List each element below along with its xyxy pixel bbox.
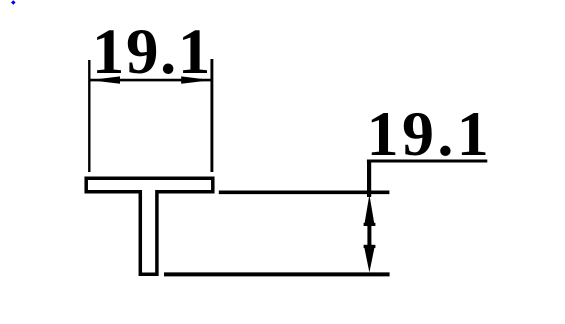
svg-text:19.1: 19.1 [92,16,212,88]
svg-text:19.1: 19.1 [367,98,493,169]
